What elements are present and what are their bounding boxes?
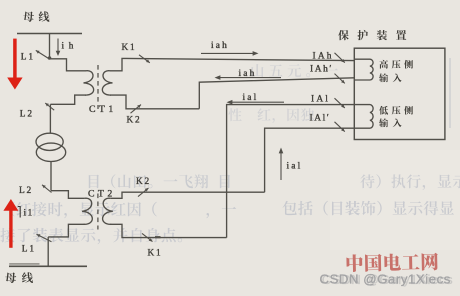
label 高压侧 — [379, 60, 413, 69]
wire CT2 primary bottom to L1 bottom — [48, 224, 84, 237]
svg-text:iah: iah — [239, 69, 257, 79]
disconnector L1 top — [36, 50, 49, 58]
red arrow down (top) — [13, 39, 17, 79]
current arrow ial vertical — [280, 151, 282, 180]
test switch K2 top circuit — [131, 105, 142, 114]
svg-text:L1: L1 — [22, 245, 36, 255]
wire IAh return (IAh prime) — [199, 78, 354, 109]
disconnector L2 bottom circuit — [42, 185, 52, 193]
watermark 中国电工网 — [346, 253, 438, 273]
transformer T (two windings) — [36, 133, 63, 150]
svg-text:IAl′: IAl′ — [310, 114, 331, 124]
wire bus to L1 junction — [49, 34, 51, 59]
svg-text:K2: K2 — [136, 177, 151, 187]
svg-text:ial: ial — [287, 162, 303, 172]
wire CT2 secondary bottom via K1 to IAl — [110, 224, 226, 237]
bleed text row C — [0, 228, 182, 244]
current arrow iah (return) — [218, 77, 281, 79]
svg-text:IAh: IAh — [313, 51, 334, 61]
bus top (母线) — [17, 33, 82, 35]
svg-text:i h: i h — [62, 41, 75, 51]
label 低压侧 — [379, 106, 413, 115]
label 保护装置 — [338, 30, 406, 40]
CT2 core dashed line — [97, 194, 99, 230]
CT1 core dashed line — [97, 65, 99, 109]
test switch IAh prime entry — [335, 74, 345, 84]
svg-text:L1: L1 — [21, 53, 35, 63]
wire CT1 secondary top K1 to IAh — [110, 58, 354, 70]
svg-text:ial: ial — [243, 93, 259, 103]
wire IAl from K1 bottom up to protection box — [227, 105, 354, 238]
svg-text:L2: L2 — [20, 109, 34, 119]
test switch IAl prime entry — [335, 122, 345, 132]
wire CT1 primary bottom to L2 switch — [50, 95, 86, 104]
wire L2 down to transformer — [49, 104, 51, 133]
svg-text:K1: K1 — [148, 249, 163, 259]
disconnector L1 bottom — [37, 234, 52, 242]
svg-text:iah: iah — [211, 41, 229, 51]
label 输入 (high) — [379, 73, 402, 82]
svg-text:IAl: IAl — [311, 94, 330, 104]
svg-text:L2: L2 — [19, 186, 33, 196]
wire transformer to L2 bottom — [50, 162, 52, 191]
svg-text:IAh′: IAh′ — [310, 65, 333, 75]
wire L2 to CT2 primary top — [51, 191, 85, 199]
CT1 primary winding (left) — [84, 71, 94, 95]
label 母线 top — [23, 11, 49, 22]
CT2 primary winding (left) — [82, 198, 92, 224]
svg-text:i1: i1 — [24, 208, 34, 218]
bleed text row B left — [10, 202, 236, 218]
svg-text:K2: K2 — [127, 116, 142, 126]
bleed text row D — [251, 64, 338, 77]
CT2 secondary winding (right) — [103, 198, 113, 224]
current arrow ih — [57, 39, 59, 52]
wire L1 junction to CT1 primary top — [50, 59, 87, 71]
protection device box — [354, 48, 445, 139]
test switch IAl entry — [335, 98, 345, 108]
relay coil high-voltage input — [354, 59, 373, 80]
CT1 secondary winding (right) — [102, 71, 112, 95]
bleed text row B right — [283, 201, 455, 216]
wire CT2 secondary top via K2 to IAl prime — [110, 192, 264, 198]
test switch IAh entry — [335, 53, 345, 63]
red arrow up (bottom) — [9, 210, 12, 248]
label 输入 (low) — [379, 118, 402, 127]
bleed text row E — [228, 108, 314, 123]
current arrow ial (return) — [230, 101, 284, 103]
relay coil low-voltage input — [354, 105, 373, 129]
disconnector L2 top circuit — [45, 103, 54, 110]
node L1 junction dot — [48, 56, 52, 60]
current label i1 with tick — [18, 206, 20, 218]
wire IAl prime from K2 bottom to box — [265, 128, 354, 192]
svg-text:K1: K1 — [122, 43, 137, 53]
bleed text row A right — [360, 174, 460, 190]
bleed mark right edge — [449, 58, 451, 128]
svg-text:CSDN @Gary1Xiecs: CSDN @Gary1Xiecs — [322, 272, 453, 287]
wire L1 to bottom bus — [47, 237, 49, 266]
svg-text:CT1: CT1 — [89, 104, 117, 115]
test switch K1 bottom circuit — [142, 233, 153, 241]
label 母线 bottom — [5, 272, 33, 283]
bus bottom (母线) — [9, 265, 87, 267]
test switch K2 bottom circuit — [138, 188, 149, 197]
wire CT1 secondary bottom via K2 — [110, 95, 199, 109]
test switch K1 top — [139, 55, 150, 63]
current arrow iah (forward) — [201, 52, 255, 54]
bleed text row A left — [89, 174, 230, 188]
